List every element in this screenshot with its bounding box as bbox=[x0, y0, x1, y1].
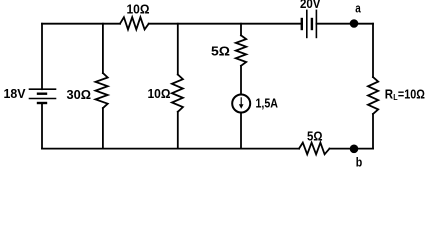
resistor 10ohm vertical bbox=[172, 75, 183, 112]
node b bbox=[350, 145, 359, 154]
svg-text:10Ω: 10Ω bbox=[127, 1, 150, 16]
node a bbox=[350, 19, 359, 28]
wire top-right segment bbox=[316, 23, 373, 25]
svg-text:10Ω: 10Ω bbox=[148, 86, 171, 101]
battery V1 18V plates bbox=[30, 89, 56, 103]
svg-text:5Ω: 5Ω bbox=[211, 43, 230, 58]
current source I1 1,5A circle bbox=[232, 95, 250, 113]
svg-text:1,5A: 1,5A bbox=[256, 96, 279, 111]
wire top-left segment bbox=[42, 23, 120, 25]
svg-text:20V: 20V bbox=[300, 0, 321, 11]
resistor 30ohm vertical bbox=[96, 73, 108, 108]
battery V2 20V plates bbox=[302, 10, 317, 37]
svg-text:18V: 18V bbox=[4, 86, 26, 101]
wire branch 30ohm bottom bbox=[102, 108, 104, 149]
wire top middle segment bbox=[149, 23, 301, 25]
wire bottom main segment bbox=[42, 148, 299, 150]
svg-text:5Ω: 5Ω bbox=[307, 129, 323, 144]
wire right side below RL bbox=[372, 114, 374, 149]
wire left side above battery bbox=[41, 24, 43, 90]
wire bottom-right segment bbox=[330, 148, 374, 150]
wire right side down to RL bbox=[372, 24, 374, 77]
wire branch 30ohm top bbox=[102, 24, 104, 73]
wire branch 5ohm top bbox=[240, 24, 242, 36]
resistor 5ohm vertical bbox=[236, 35, 246, 66]
resistor RL 10ohm vertical bbox=[368, 77, 378, 114]
current source arrow bbox=[239, 97, 244, 109]
svg-text:b: b bbox=[356, 155, 363, 170]
wire branch 10ohm bottom bbox=[177, 112, 179, 149]
svg-text:a: a bbox=[355, 1, 361, 16]
wire branch current source bottom bbox=[240, 113, 242, 148]
resistor 10ohm top horizontal bbox=[120, 17, 149, 29]
svg-text:30Ω: 30Ω bbox=[67, 87, 92, 102]
wire left side below battery bbox=[41, 103, 43, 149]
wire branch 10ohm top bbox=[177, 24, 179, 75]
wire between 5ohm and current source bbox=[240, 66, 242, 94]
resistor 5ohm bottom horizontal bbox=[299, 143, 330, 155]
svg-text:=10Ω: =10Ω bbox=[398, 86, 425, 101]
